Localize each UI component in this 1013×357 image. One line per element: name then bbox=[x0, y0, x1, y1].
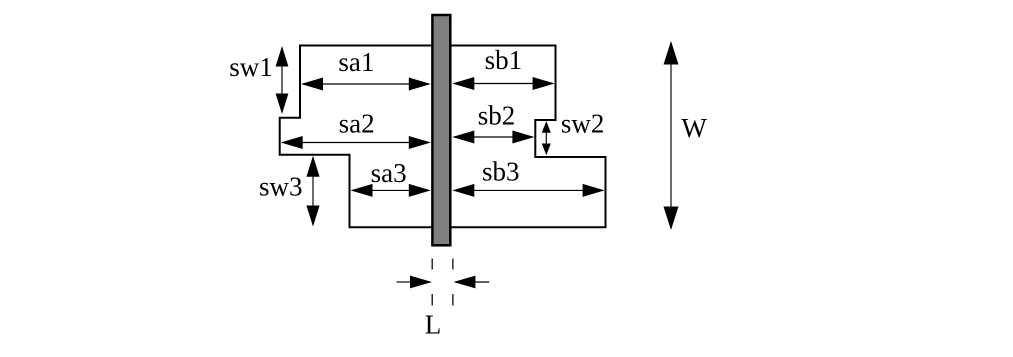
arrow sb2 bbox=[454, 136, 532, 138]
arrow L left bbox=[397, 281, 413, 283]
svg-text:sw3: sw3 bbox=[259, 172, 303, 202]
svg-text:sb1: sb1 bbox=[485, 45, 523, 75]
arrow sa3 bbox=[353, 189, 429, 191]
arrow L right bbox=[473, 281, 489, 283]
svg-text:sa1: sa1 bbox=[338, 47, 374, 77]
svg-text:sb3: sb3 bbox=[482, 157, 520, 187]
arrow sw2 bbox=[545, 123, 547, 153]
gate bar (poly) bbox=[432, 15, 450, 245]
diffusion outline bbox=[280, 46, 606, 228]
svg-text:sa2: sa2 bbox=[339, 109, 375, 139]
svg-text:W: W bbox=[681, 113, 707, 143]
arrow sb1 bbox=[454, 83, 552, 85]
svg-text:sw2: sw2 bbox=[561, 109, 605, 139]
arrow sb3 bbox=[454, 189, 602, 191]
arrow sa1 bbox=[303, 83, 429, 85]
arrow sw1 bbox=[281, 48, 283, 112]
svg-text:sw1: sw1 bbox=[229, 52, 273, 82]
svg-text:L: L bbox=[425, 309, 442, 339]
dashed gate edge lines bbox=[431, 259, 433, 270]
svg-text:sb2: sb2 bbox=[478, 101, 516, 131]
arrow sa2 bbox=[283, 142, 429, 144]
svg-text:sa3: sa3 bbox=[371, 158, 407, 188]
arrow sw3 bbox=[312, 158, 314, 225]
arrow W bbox=[670, 43, 672, 228]
